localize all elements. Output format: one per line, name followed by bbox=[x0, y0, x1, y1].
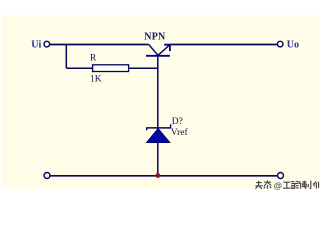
terminal bottom-left bbox=[44, 173, 50, 179]
wire resistor left lead bbox=[66, 67, 92, 69]
svg-text:Vref: Vref bbox=[171, 127, 189, 138]
svg-text:NPN: NPN bbox=[144, 31, 166, 42]
watermark 头条 @工程师小何 bbox=[255, 180, 318, 188]
wire transistor emitter to Uo bbox=[170, 44, 278, 46]
terminal bottom-right bbox=[278, 173, 284, 179]
transistor Q1 NPN bbox=[146, 45, 170, 56]
anode triangle bbox=[146, 128, 170, 142]
svg-text:R: R bbox=[90, 54, 97, 64]
svg-text:Ui: Ui bbox=[31, 40, 41, 51]
wire Ui to transistor collector bbox=[50, 44, 149, 46]
emitter slant bbox=[158, 45, 170, 56]
wire vertical drop to resistor bbox=[65, 45, 67, 69]
wire resistor right lead to base line bbox=[129, 67, 158, 69]
svg-text:1K: 1K bbox=[90, 74, 102, 84]
emitter arrowhead bbox=[164, 45, 170, 51]
cathode right hook (up) bbox=[170, 124, 172, 128]
wire bottom rail bbox=[50, 175, 277, 177]
base bar bbox=[146, 55, 170, 57]
schematic sheet background bbox=[2, 15, 319, 189]
svg-text:Uo: Uo bbox=[287, 40, 299, 51]
wire transistor base down through zener to bottom rail bbox=[157, 56, 159, 176]
junction dot (red) bbox=[155, 173, 160, 178]
terminal Uo bbox=[277, 41, 283, 47]
cathode left hook (down) bbox=[146, 128, 148, 130]
zener diode D? bbox=[146, 124, 171, 142]
collector slant bbox=[149, 45, 158, 56]
svg-text:D?: D? bbox=[172, 117, 183, 127]
resistor R1 body bbox=[93, 65, 129, 72]
cathode bar bbox=[146, 127, 171, 129]
terminal Ui bbox=[44, 41, 50, 47]
svg-text:@: @ bbox=[274, 181, 282, 191]
